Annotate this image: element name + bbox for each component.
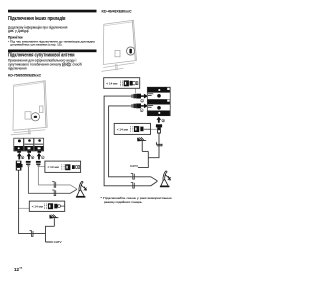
- TV left bottom lip: [14, 130, 45, 133]
- wire sat lower to dish upper: [109, 106, 158, 181]
- svg-text:< 14 мм: < 14 мм: [117, 127, 128, 131]
- arrow into panel lower: [141, 105, 144, 107]
- svg-text:див. у Довідці.: див. у Довідці.: [8, 29, 29, 33]
- jack box C: [34, 138, 44, 151]
- arrow up C: [37, 153, 42, 160]
- terrestrial antenna left: [49, 215, 58, 227]
- arrow up B: [27, 153, 32, 160]
- node ring c right: [140, 109, 143, 112]
- ferrite bead on upper dish wire: [131, 174, 135, 180]
- TV left side connector recess: [39, 106, 43, 113]
- connector inside circle left: [34, 116, 37, 118]
- jack barrel C: [38, 151, 42, 153]
- jack box B: [24, 138, 34, 151]
- TV right stand neck: [116, 64, 118, 70]
- svg-text:KD-49/43XE80xxC: KD-49/43XE80xxC: [102, 10, 132, 14]
- svg-text:режиму подвійного тюнера.: режиму подвійного тюнера.: [104, 200, 142, 204]
- antenna plug A: [16, 161, 23, 171]
- svg-text:дотримуйтесь цих вказівок (сто: дотримуйтесь цих вказівок (стор. 15).: [10, 43, 62, 47]
- satellite dish right: [160, 171, 171, 187]
- antenna plug right vertical: [156, 124, 162, 133]
- jack box A: [14, 138, 24, 151]
- ferrite bead on wire B: [52, 190, 56, 196]
- section bar 2: [8, 50, 97, 53]
- callout box 14mm no.3: [104, 78, 140, 94]
- svg-text:KD-75/65/55XE85xxC: KD-75/65/55XE85xxC: [8, 74, 41, 78]
- TV right bottom lip: [104, 63, 135, 68]
- svg-text:< 14 мм: < 14 мм: [106, 82, 117, 86]
- svg-text:Підключення інших приладів: Підключення інших приладів: [8, 16, 66, 22]
- terrestrial antenna right: [137, 137, 146, 151]
- callout box 14mm no.4: [114, 123, 157, 134]
- TV left connector panel rect: [25, 112, 31, 119]
- TV rear left outline: [13, 81, 47, 131]
- arrow into panel upper: [141, 95, 144, 97]
- TV right connector panel rect: [115, 51, 120, 57]
- node ring a right: [162, 119, 165, 122]
- sat plug upper: [131, 94, 141, 99]
- section bar 1: [8, 10, 97, 13]
- wire from plug B to dish: [28, 167, 77, 194]
- svg-text:CATV: CATV: [130, 164, 139, 168]
- ferrite bead vertical right: [156, 142, 162, 146]
- TV left stand base: [11, 133, 31, 134]
- TV left stand neck: [29, 130, 31, 135]
- node ring A inline: [62, 63, 66, 67]
- node ring c: [41, 156, 44, 159]
- node ring B inline: [67, 63, 71, 67]
- TV right stand base: [102, 68, 123, 71]
- satellite dish left: [76, 181, 87, 197]
- ferrite bead on lower dish wire: [131, 183, 135, 189]
- jack barrel A: [17, 151, 21, 153]
- svg-text:Підключення супутникової антен: Підключення супутникової антени: [8, 53, 75, 59]
- TV left inner right-edge line: [44, 81, 46, 126]
- wire from plug C to dish: [38, 167, 77, 189]
- antenna branch right: [142, 150, 148, 152]
- svg-text:CATV: CATV: [54, 240, 63, 244]
- TV right inner right-edge line: [132, 21, 135, 60]
- jack barrel B: [27, 151, 31, 153]
- zoom circle left: [31, 113, 39, 121]
- junction wire to antenna and CATV: [46, 226, 55, 242]
- TV rear right outline: [103, 20, 136, 64]
- connector inside circle right: [129, 49, 132, 54]
- wire from plug A down: [19, 171, 46, 234]
- callout box 14mm no.2: [18, 201, 65, 211]
- svg-text:< 14 мм: < 14 мм: [48, 165, 59, 169]
- wire antenna column right: [138, 134, 159, 168]
- node ring b right: [141, 99, 144, 102]
- svg-text:< 14 мм: < 14 мм: [32, 204, 43, 208]
- svg-text:підключення: підключення: [8, 66, 27, 70]
- callout box 14mm no.1: [38, 161, 80, 172]
- ferrite bead on wire C: [52, 182, 56, 188]
- node ring b: [31, 156, 34, 159]
- ferrite bead on wire A: [30, 231, 34, 237]
- wire sat upper to dish lower: [104, 96, 157, 186]
- arrow up A: [17, 153, 22, 160]
- arrow up into panel bottom: [157, 117, 162, 123]
- node ring a: [21, 156, 24, 159]
- zoom circle right: [127, 47, 135, 55]
- satellite plug B: [26, 161, 31, 167]
- sat plug lower: [131, 104, 141, 109]
- connector panel right: [147, 87, 170, 116]
- satellite plug C: [36, 161, 41, 167]
